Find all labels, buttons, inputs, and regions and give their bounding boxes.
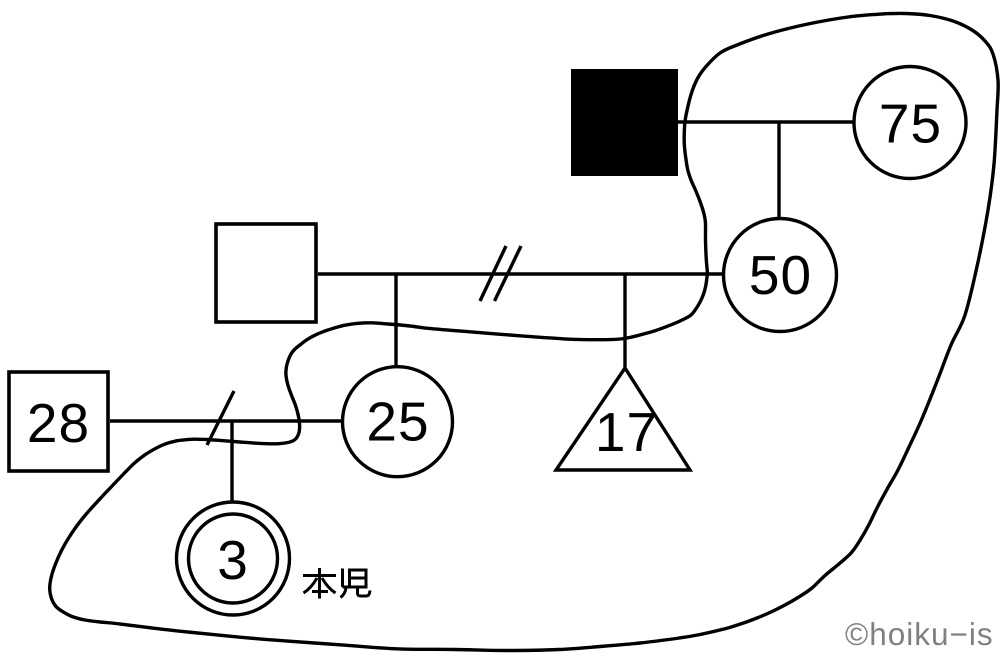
svg-text:50: 50 — [749, 244, 812, 306]
svg-text:75: 75 — [879, 92, 942, 154]
svg-text:17: 17 — [595, 401, 658, 463]
svg-text:25: 25 — [366, 391, 429, 453]
svg-text:©hoiku−is: ©hoiku−is — [845, 616, 994, 652]
svg-text:3: 3 — [217, 529, 249, 591]
svg-text:28: 28 — [27, 392, 90, 454]
